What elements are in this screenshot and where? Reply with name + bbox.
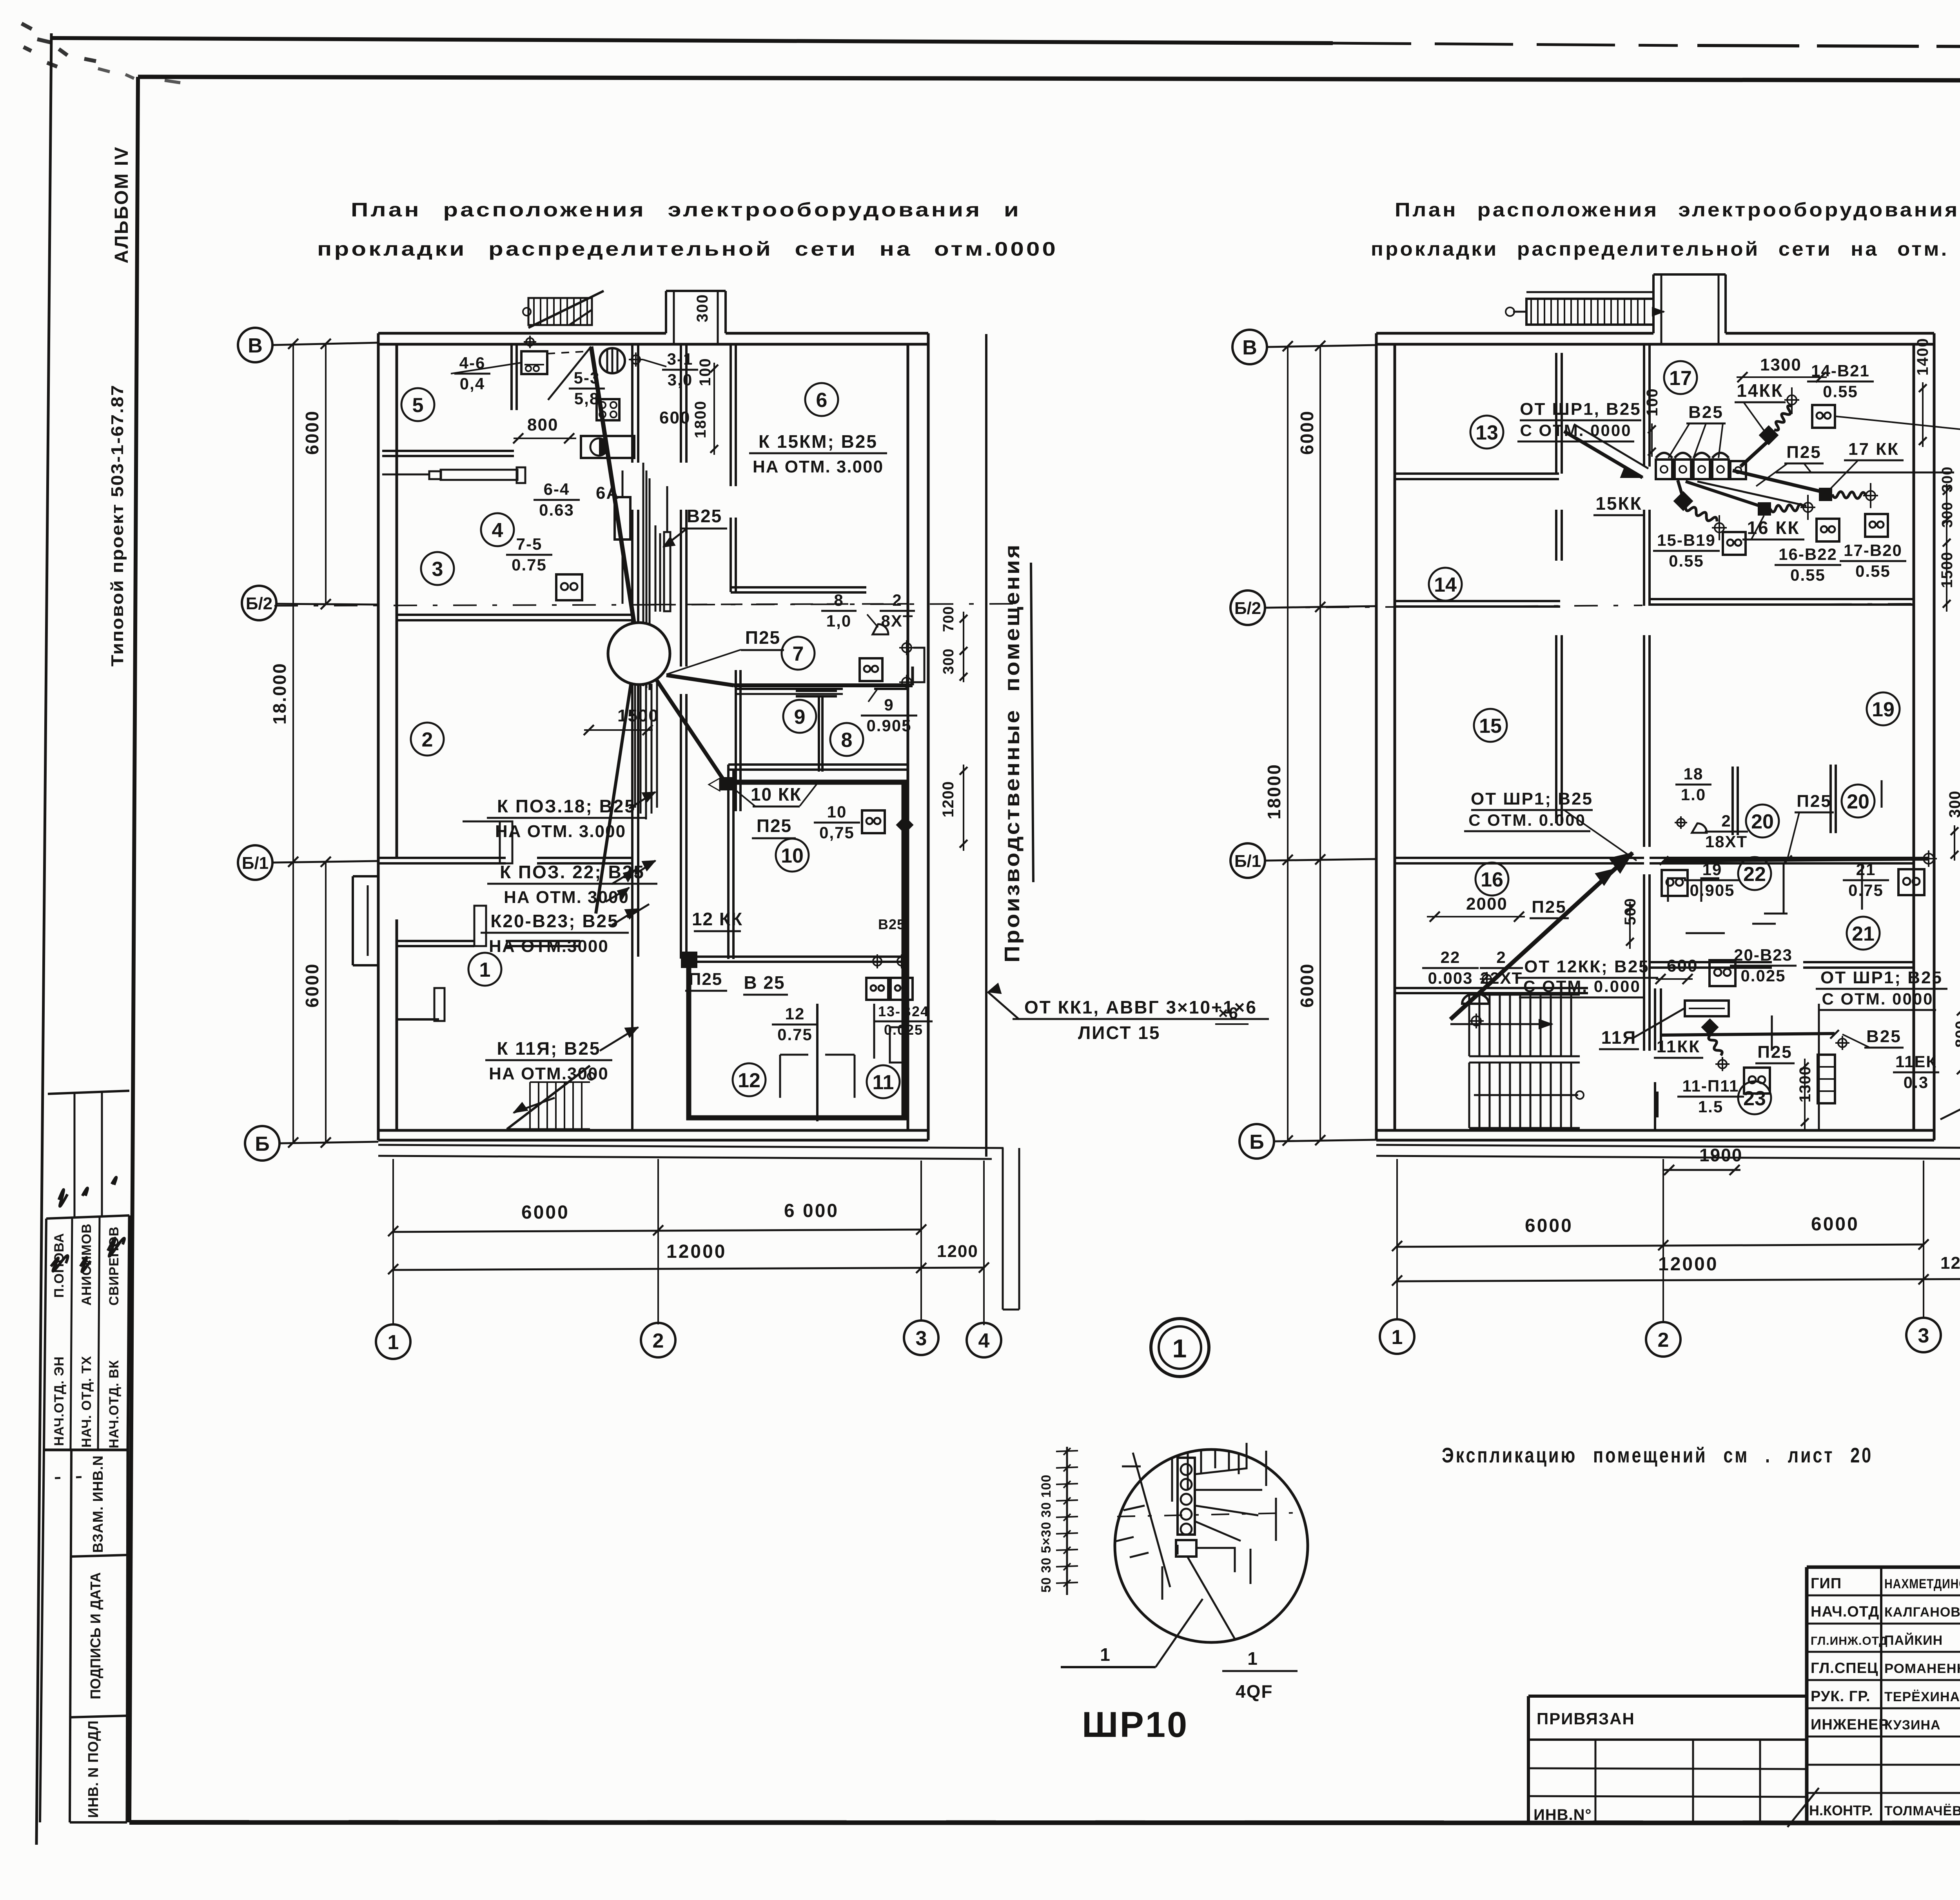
heater device room23 xyxy=(1685,1001,1729,1016)
svg-text:0,4: 0,4 xyxy=(460,374,485,393)
title block col lines staff xyxy=(1880,1567,1882,1822)
right plan small partitions room22 xyxy=(1668,878,1719,902)
svg-text:17 КК: 17 КК xyxy=(1848,440,1899,459)
svg-text:П25: П25 xyxy=(1786,443,1822,462)
svg-text:600: 600 xyxy=(659,408,690,427)
svg-text:Б/1: Б/1 xyxy=(1234,852,1261,871)
outlet room7 xyxy=(860,658,882,681)
svg-text:0.55: 0.55 xyxy=(1855,562,1891,580)
lamp stem 17KK xyxy=(1866,491,1875,500)
svg-text:5: 5 xyxy=(412,394,424,417)
wire bundle below circle xyxy=(634,684,636,808)
left bottom dim line 12000 xyxy=(393,1268,984,1270)
lamp stem 14KK xyxy=(1787,395,1797,405)
svg-text:0.3: 0.3 xyxy=(1904,1073,1929,1092)
room circle 3 xyxy=(421,552,454,585)
svg-text:16-В22: 16-В22 xyxy=(1779,545,1837,563)
svg-text:12000: 12000 xyxy=(666,1241,726,1262)
drawing frame bottom xyxy=(129,1822,1960,1823)
left plan room9 partition xyxy=(735,670,737,811)
axis circle 3-left xyxy=(904,1321,938,1355)
svg-text:11: 11 xyxy=(873,1071,894,1094)
left plan wc partitions xyxy=(816,1004,818,1121)
svg-text:1: 1 xyxy=(388,1331,399,1354)
left plan column lines to axis marks xyxy=(392,1159,394,1324)
wire heavy feeder diagonal xyxy=(1450,853,1633,1019)
section marker circle 1 xyxy=(1151,1319,1209,1377)
room circle 9 xyxy=(783,700,816,733)
privyazan slash xyxy=(1788,1788,1819,1827)
axis circle V-left xyxy=(238,328,272,362)
svg-text:3-1: 3-1 xyxy=(667,350,693,368)
wire leader 4-6 xyxy=(451,363,521,374)
right plan right exterior wall xyxy=(1913,344,1915,1130)
wire arrow k11 xyxy=(600,1027,638,1051)
svg-text:К 11Я; В25: К 11Я; В25 xyxy=(497,1038,601,1059)
wire leader v25 23 xyxy=(1842,1034,1870,1048)
right dim chain vertical lines xyxy=(1287,347,1289,1141)
svg-text:4: 4 xyxy=(978,1330,990,1352)
svg-text:НА ОТМ. 3.000: НА ОТМ. 3.000 xyxy=(753,457,884,476)
svg-text:1,0: 1,0 xyxy=(826,612,851,630)
svg-text:6000: 6000 xyxy=(1811,1214,1859,1235)
right bottom dim line 12000 xyxy=(1397,1279,1960,1281)
svg-text:НА ОТМ.3000: НА ОТМ.3000 xyxy=(489,1064,609,1083)
sheet outer left edge line xyxy=(36,33,51,1845)
left plan rooms 10-12 block top wall xyxy=(728,763,908,766)
wire leader p25 top xyxy=(1756,463,1811,486)
bell symbol 8XT xyxy=(873,624,888,634)
svg-text:План расположения электрооб: План расположения электрооборудования и xyxy=(351,199,1021,221)
svg-text:ГЛ.ИНЖ.ОТД: ГЛ.ИНЖ.ОТД xyxy=(1811,1635,1888,1648)
detail dashed axis xyxy=(1117,1513,1305,1517)
detail view circle xyxy=(1115,1450,1308,1642)
wire wavy 14KK xyxy=(1774,406,1792,430)
privyazan box frame xyxy=(1528,1695,1807,1698)
svg-text:В: В xyxy=(1242,336,1257,359)
junction box 10KK xyxy=(720,777,733,790)
outlet 20-B23 xyxy=(1710,960,1735,986)
right plan partitions room23 area xyxy=(1654,988,1656,1050)
node junction big circle xyxy=(608,623,670,685)
wire wavy 11KK xyxy=(1709,1035,1722,1055)
title block outer top xyxy=(1807,1566,1960,1569)
left plan vent fan circle xyxy=(600,348,625,373)
axis line B-right xyxy=(1274,1140,1376,1141)
room circle 17 xyxy=(1664,361,1697,394)
axis circle B2-right xyxy=(1230,590,1265,625)
axis line B1-right xyxy=(1265,859,1376,861)
svg-text:16 КК: 16 КК xyxy=(1747,518,1800,538)
svg-text:ОТ 12КК; В25: ОТ 12КК; В25 xyxy=(1524,957,1650,976)
lamp stem 16KK xyxy=(1803,503,1813,512)
left plan stairwell stairs xyxy=(507,1066,590,1129)
svg-text:ИНЖЕНЕР: ИНЖЕНЕР xyxy=(1811,1717,1889,1733)
svg-text:21: 21 xyxy=(1852,923,1875,945)
junction diamond room10 xyxy=(896,816,913,834)
svg-text:П25: П25 xyxy=(689,970,723,989)
room circle 1 xyxy=(468,953,501,986)
svg-text:1400: 1400 xyxy=(1914,338,1931,376)
stamp table frame xyxy=(46,1215,129,1219)
left plan right exterior wall xyxy=(907,344,909,1130)
outlet room10 xyxy=(862,810,885,833)
wire leaders V25 cluster xyxy=(1668,423,1723,458)
svg-text:15: 15 xyxy=(1479,715,1502,737)
room circle 12 xyxy=(733,1063,766,1096)
svg-text:20-В23: 20-В23 xyxy=(1734,946,1793,964)
svg-text:100: 100 xyxy=(1644,388,1661,416)
svg-text:19: 19 xyxy=(1872,698,1895,721)
svg-text:12 КК: 12 КК xyxy=(692,909,743,929)
svg-text:С ОТМ. 0000: С ОТМ. 0000 xyxy=(1822,990,1933,1008)
left plan wall room3-room2 xyxy=(397,614,632,616)
left plan roof hatch shaft xyxy=(665,291,667,333)
axis line B-left xyxy=(279,1142,378,1143)
svg-text:1900: 1900 xyxy=(1699,1145,1742,1165)
svg-text:800: 800 xyxy=(527,415,558,434)
wire wavy 17KK xyxy=(1832,492,1866,498)
svg-text:ПОДПИСЬ И ДАТА: ПОДПИСЬ И ДАТА xyxy=(87,1572,103,1699)
svg-text:5-3: 5-3 xyxy=(574,369,600,387)
svg-text:6000: 6000 xyxy=(1525,1215,1573,1236)
svg-text:14: 14 xyxy=(1434,574,1457,596)
room circle 23 xyxy=(1738,1081,1771,1114)
left plan room6 left wall xyxy=(730,344,732,486)
wire arrow k20 xyxy=(612,909,638,925)
left plan stub wall room5 xyxy=(510,344,513,410)
svg-text:Б: Б xyxy=(255,1133,269,1155)
svg-text:В 25: В 25 xyxy=(744,972,785,993)
svg-text:0.55: 0.55 xyxy=(1790,566,1826,584)
svg-text:2: 2 xyxy=(1658,1329,1669,1351)
axis circle 1-right xyxy=(1380,1319,1414,1354)
left plan conduit riser rect xyxy=(615,497,630,539)
drawing frame top xyxy=(138,77,1960,82)
junction box 17KK xyxy=(1819,488,1832,501)
svg-text:прокладки распределительной: прокладки распределительной сети на отм.… xyxy=(317,238,1058,260)
left plan axis B2 dashed line xyxy=(274,604,1019,606)
detail cabinet bus xyxy=(1178,1458,1195,1535)
left plan chimney dim line xyxy=(713,363,715,455)
right plan partitions top-right rooms xyxy=(1731,767,1734,835)
right bottom dim line 6000+6000 xyxy=(1397,1244,1924,1247)
svg-text:600: 600 xyxy=(1667,956,1698,975)
svg-text:В25: В25 xyxy=(1866,1027,1902,1046)
svg-text:В: В xyxy=(248,334,263,357)
svg-text:6000: 6000 xyxy=(1297,963,1317,1008)
svg-text:ПАЙКИН: ПАЙКИН xyxy=(1884,1633,1943,1648)
svg-text:АЛЬБОМ IV: АЛЬБОМ IV xyxy=(111,146,132,263)
svg-text:16: 16 xyxy=(1481,868,1503,891)
room circle 7 xyxy=(782,637,815,670)
svg-text:6А: 6А xyxy=(596,483,619,503)
svg-text:6000: 6000 xyxy=(302,963,322,1008)
svg-text:18ХТ: 18ХТ xyxy=(1705,832,1748,851)
svg-text:0.003: 0.003 xyxy=(1428,969,1473,987)
wire leader 11ya xyxy=(1633,1008,1686,1038)
svg-text:6 000: 6 000 xyxy=(784,1201,839,1221)
svg-text:300: 300 xyxy=(694,294,711,322)
svg-text:ОТ ШР1; В25: ОТ ШР1; В25 xyxy=(1471,789,1593,808)
detail wires top xyxy=(1172,1450,1239,1502)
svg-text:1: 1 xyxy=(1247,1648,1258,1669)
svg-text:НАЧ.ОТД. ЭН: НАЧ.ОТД. ЭН xyxy=(52,1356,67,1446)
svg-text:ГИП: ГИП xyxy=(1811,1575,1842,1592)
svg-text:ОТ ШР1, В25: ОТ ШР1, В25 xyxy=(1520,400,1641,419)
svg-text:ИНВ.N°: ИНВ.N° xyxy=(1534,1806,1592,1824)
svg-text:17-В20: 17-В20 xyxy=(1844,541,1902,559)
svg-text:11Я: 11Я xyxy=(1601,1027,1637,1048)
room circle 11 xyxy=(867,1065,900,1098)
svg-text:С ОТМ. 0.000: С ОТМ. 0.000 xyxy=(1523,977,1641,995)
wire wavy 15KK xyxy=(1686,507,1717,521)
wire leader p25 mid xyxy=(1788,812,1799,859)
svg-text:11ЕК: 11ЕК xyxy=(1895,1052,1937,1071)
svg-text:ЛИСТ 15: ЛИСТ 15 xyxy=(1078,1023,1160,1043)
margin small marks xyxy=(55,1477,94,1478)
wire wavy 16KK xyxy=(1770,504,1803,512)
axis circle 1-left xyxy=(376,1324,410,1359)
svg-text:ШР10: ШР10 xyxy=(1082,1705,1189,1745)
right plan axis B2 dashed xyxy=(1266,607,1396,608)
wire heavy to southwest xyxy=(596,682,631,914)
right plan wall at B2 level xyxy=(1395,600,1560,602)
wire leader production right xyxy=(1940,1086,1960,1119)
room circle 19 xyxy=(1867,692,1900,725)
lamp stem 15KK xyxy=(1715,523,1724,532)
svg-text:ИНВ. N ПОДЛ: ИНВ. N ПОДЛ xyxy=(85,1720,101,1818)
left plan bottom exterior wall xyxy=(378,1129,928,1132)
svg-text:22: 22 xyxy=(1743,863,1766,886)
svg-text:7-5: 7-5 xyxy=(516,535,543,553)
svg-text:П25: П25 xyxy=(745,627,780,648)
axis line V-right xyxy=(1267,345,1376,347)
svg-text:1200: 1200 xyxy=(940,781,957,817)
right plan wall under rooms15-19 xyxy=(1650,598,1914,600)
junction box 15KK xyxy=(1673,491,1693,511)
svg-text:НА ОТМ. 3000: НА ОТМ. 3000 xyxy=(504,888,629,907)
svg-text:2: 2 xyxy=(1496,948,1506,966)
room circle 21 xyxy=(1847,917,1880,950)
room circle 2 xyxy=(411,723,444,756)
svg-text:1300: 1300 xyxy=(1760,355,1802,374)
svg-text:13-В24: 13-В24 xyxy=(878,1003,929,1019)
svg-text:НАЧ. ОТД. ТХ: НАЧ. ОТД. ТХ xyxy=(79,1356,94,1448)
left plan wall room5-room3 xyxy=(382,450,514,452)
axis line B2-right xyxy=(1265,606,1376,608)
axis circle B1-right xyxy=(1230,843,1265,878)
svg-text:1200: 1200 xyxy=(937,1242,978,1261)
svg-text:1200: 1200 xyxy=(1940,1253,1960,1273)
right plan stairwell top wall xyxy=(1395,987,1588,989)
svg-text:6000: 6000 xyxy=(1297,410,1317,455)
svg-text:РУК. ГР.: РУК. ГР. xyxy=(1811,1688,1871,1705)
svg-text:19: 19 xyxy=(1702,860,1722,879)
left plan B2 axis inner dashed xyxy=(650,604,908,605)
left plan production rooms boundary line xyxy=(985,334,987,1157)
svg-text:18.000: 18.000 xyxy=(269,662,290,725)
wire run to room7 row xyxy=(666,675,734,685)
detail wires left xyxy=(1122,1453,1170,1600)
svg-text:К ПОЗ.18; В25: К ПОЗ.18; В25 xyxy=(497,796,636,816)
wire leader shr1 mid xyxy=(1564,810,1637,861)
svg-text:21: 21 xyxy=(1856,860,1876,879)
svg-text:0.025: 0.025 xyxy=(1740,966,1786,985)
panel box row xyxy=(1656,460,1672,479)
label ShR10 xyxy=(1061,1666,1156,1668)
svg-text:0.55: 0.55 xyxy=(1669,552,1704,570)
wire bundle arrows xyxy=(606,870,649,917)
room circle 16 xyxy=(1475,863,1508,896)
wire arrow poz22 xyxy=(635,861,655,874)
axis circle 2-right xyxy=(1646,1322,1681,1357)
margin strip frame xyxy=(70,1450,71,1822)
wire leader P25 upper xyxy=(666,650,741,674)
right plan left exterior wall xyxy=(1375,333,1378,1140)
svg-text:Б/1: Б/1 xyxy=(242,854,269,873)
battery heater 11EK xyxy=(1818,1055,1835,1103)
left plan bay window xyxy=(353,875,378,877)
svg-text:8: 8 xyxy=(841,729,853,752)
svg-text:КАЛГАНОВ: КАЛГАНОВ xyxy=(1884,1605,1960,1620)
outlet room23b xyxy=(1744,1068,1770,1093)
svg-text:3: 3 xyxy=(916,1327,927,1350)
svg-text:0.905: 0.905 xyxy=(866,716,911,735)
right plan feeder arrow into cluster xyxy=(1564,431,1642,478)
axis circle 3-right xyxy=(1906,1318,1941,1352)
room circle 4 xyxy=(481,513,514,546)
wire leader to circle 18 xyxy=(1836,416,1960,430)
svg-text:22: 22 xyxy=(1441,948,1461,966)
svg-text:П25: П25 xyxy=(1532,897,1567,917)
right plan south canopy lines xyxy=(1376,1145,1960,1148)
detail ruler xyxy=(1066,1447,1068,1595)
right plan mid column wall xyxy=(1555,510,1557,561)
svg-text:2: 2 xyxy=(1721,812,1731,830)
svg-text:1: 1 xyxy=(1392,1326,1403,1349)
svg-text:4: 4 xyxy=(492,519,503,542)
svg-text:0.75: 0.75 xyxy=(512,556,547,574)
right plan top exterior wall xyxy=(1376,332,1653,335)
svg-text:0.75: 0.75 xyxy=(1848,881,1884,899)
svg-text:9: 9 xyxy=(884,696,894,714)
room circle 15 xyxy=(1474,709,1507,742)
svg-text:20: 20 xyxy=(1847,790,1869,813)
svg-text:12000: 12000 xyxy=(1658,1254,1718,1275)
svg-text:ВЗАМ. ИНВ.N: ВЗАМ. ИНВ.N xyxy=(90,1455,106,1553)
outlet 16-B22 xyxy=(1817,519,1839,541)
svg-text:14-В21: 14-В21 xyxy=(1811,361,1870,380)
left plan right margin shaft xyxy=(1002,1148,1004,1310)
svg-text:4QF: 4QF xyxy=(1236,1681,1273,1702)
svg-text:Б: Б xyxy=(1249,1131,1264,1153)
svg-text:В25: В25 xyxy=(687,506,722,526)
svg-text:6-4: 6-4 xyxy=(544,480,570,498)
svg-text:6000: 6000 xyxy=(521,1202,570,1223)
svg-text:КУЗИНА: КУЗИНА xyxy=(1884,1718,1941,1733)
lamp dome 22XT xyxy=(1462,994,1489,1004)
svg-text:РОМАНЕНКО: РОМАНЕНКО xyxy=(1884,1661,1960,1676)
left plan top exterior wall xyxy=(378,332,666,335)
room circle 20b xyxy=(1842,785,1875,817)
svg-text:15КК: 15КК xyxy=(1595,493,1642,514)
junction box 16KK xyxy=(1758,502,1771,516)
left plan production text underline xyxy=(1031,563,1033,882)
svg-text:2: 2 xyxy=(653,1330,664,1352)
svg-text:1.0: 1.0 xyxy=(1681,785,1706,804)
svg-text:В25: В25 xyxy=(878,916,905,932)
svg-text:2: 2 xyxy=(892,591,902,609)
left plan heater panel xyxy=(581,436,634,458)
svg-text:700: 700 xyxy=(940,606,957,632)
axis circle B2-left xyxy=(242,586,276,620)
title block staff row lines xyxy=(1807,1595,1960,1597)
right plan roof stair strip xyxy=(1526,299,1653,325)
room circle 22 xyxy=(1738,857,1771,890)
axis circle B-left xyxy=(245,1126,279,1161)
wire arrow poz18 xyxy=(629,792,655,808)
svg-text:6: 6 xyxy=(816,389,828,412)
wire leader 3-1 xyxy=(643,360,666,367)
left plan stove symbol xyxy=(597,399,619,420)
wire leader 17kk xyxy=(1830,460,1858,489)
svg-text:Б/2: Б/2 xyxy=(246,594,272,613)
svg-text:10 КК: 10 КК xyxy=(751,784,802,805)
svg-text:ОТ ШР1; В25: ОТ ШР1; В25 xyxy=(1820,968,1943,987)
svg-text:23: 23 xyxy=(1743,1087,1766,1110)
svg-text:12: 12 xyxy=(738,1069,760,1092)
sheet outer top edge line xyxy=(51,38,1333,43)
right plan wall rooms22-23 xyxy=(1650,961,1772,963)
svg-text:С ОТМ. 0000: С ОТМ. 0000 xyxy=(1520,421,1632,440)
right plan column lines to axis marks xyxy=(1396,1159,1398,1319)
svg-text:13: 13 xyxy=(1475,421,1498,444)
room circle 10 xyxy=(776,839,809,872)
svg-text:П25: П25 xyxy=(1757,1043,1793,1062)
svg-text:В25: В25 xyxy=(1688,403,1724,422)
outlet room3 xyxy=(556,574,582,600)
svg-text:11КК: 11КК xyxy=(1657,1037,1700,1056)
axis circle 2-left xyxy=(641,1323,675,1357)
svg-text:6000: 6000 xyxy=(302,410,322,455)
svg-text:10: 10 xyxy=(781,845,804,867)
room circle 5 xyxy=(401,388,434,421)
svg-text:0.63: 0.63 xyxy=(539,501,574,519)
svg-text:2000: 2000 xyxy=(1466,894,1508,914)
svg-text:П25: П25 xyxy=(1797,792,1832,811)
outlet 21 xyxy=(1898,869,1924,895)
svg-text:50 30 5×30 30 100: 50 30 5×30 30 100 xyxy=(1039,1474,1054,1593)
svg-text:14КК: 14КК xyxy=(1737,380,1783,401)
svg-text:1: 1 xyxy=(479,959,491,981)
right plan wall B1 level xyxy=(1395,857,1644,859)
outlet room18 xyxy=(1812,405,1835,428)
svg-text:К20-В23; В25: К20-В23; В25 xyxy=(490,911,619,931)
stair lamp point xyxy=(1483,975,1491,983)
wire leader 14kk xyxy=(1744,402,1764,430)
right plan corridor wall xyxy=(1643,344,1645,467)
wire leader 9 xyxy=(868,688,878,702)
svg-text:прокладки распределительной: прокладки распределительной сети на отм.… xyxy=(1371,238,1960,260)
svg-text:8: 8 xyxy=(834,591,844,609)
right plan main stairs upper flight xyxy=(1468,995,1470,1056)
left plan slim duct xyxy=(664,532,670,611)
svg-text:К ПОЗ. 22; В25: К ПОЗ. 22; В25 xyxy=(500,862,645,882)
svg-text:ГЛ.СПЕЦ: ГЛ.СПЕЦ xyxy=(1811,1660,1878,1677)
svg-text:Н.КОНТР.: Н.КОНТР. xyxy=(1809,1802,1873,1818)
right plan wall rooms19-22 xyxy=(1650,857,1914,859)
